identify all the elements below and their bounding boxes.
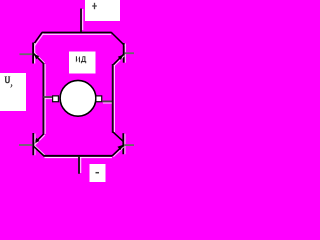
motor terminal square right [96,96,102,102]
transistor Q3 collector arrow [34,138,39,143]
label box Uy [0,73,26,111]
transistor Q2 bar [124,44,126,63]
transistor Q2 base wire [125,52,134,54]
plus sign [92,3,97,9]
label box ИД [69,52,96,74]
transistor Q3 base wire [19,144,32,146]
label text Д [81,56,86,63]
wire from bottom rail down to - node [80,157,82,173]
wire right motor lead [103,102,112,104]
transistor Q3 (bottom-left) collector diagonal [35,135,45,145]
wire bottom rail [45,157,113,159]
transistor Q4 emitter arrow [117,145,123,150]
transistor Q3 bar [34,134,36,156]
motor M (circle) [60,80,96,116]
transistor Q4 (bottom-right) collector diagonal [114,133,124,142]
transistor Q2 (top-right) collector diagonal [113,34,125,46]
transistor Q4 bar [124,134,126,155]
wire left vertical (Q1 emitter to Q3 collector) [44,64,46,134]
node -V label box [90,164,106,182]
label text И [76,56,80,62]
wire from + node down to top rail [82,9,84,30]
node +V label box [85,0,120,21]
wire left motor lead [45,98,53,100]
minus sign [96,172,100,174]
label subscript y [10,84,12,87]
transistor Q1 emitter arrow [34,54,39,59]
transistor Q2 emitter diagonal [114,56,124,66]
magenta background [0,0,134,182]
transistor Q3 emitter diagonal [35,146,45,156]
transistor Q4 base wire [124,144,134,146]
transistor Q1 emitter diagonal [35,53,45,63]
transistor Q4 emitter diagonal [113,147,124,157]
transistor Q1 bar [34,43,36,64]
wire top rail [43,33,112,35]
transistor Q1 (top-left) collector diagonal [35,34,44,46]
label text U [5,76,11,83]
transistor Q1 base wire [20,53,33,55]
motor terminal square left [53,96,59,102]
transistor Q2 emitter arrow [118,55,123,60]
wire right vertical (Q2 emitter to Q4 collector) [113,65,115,132]
